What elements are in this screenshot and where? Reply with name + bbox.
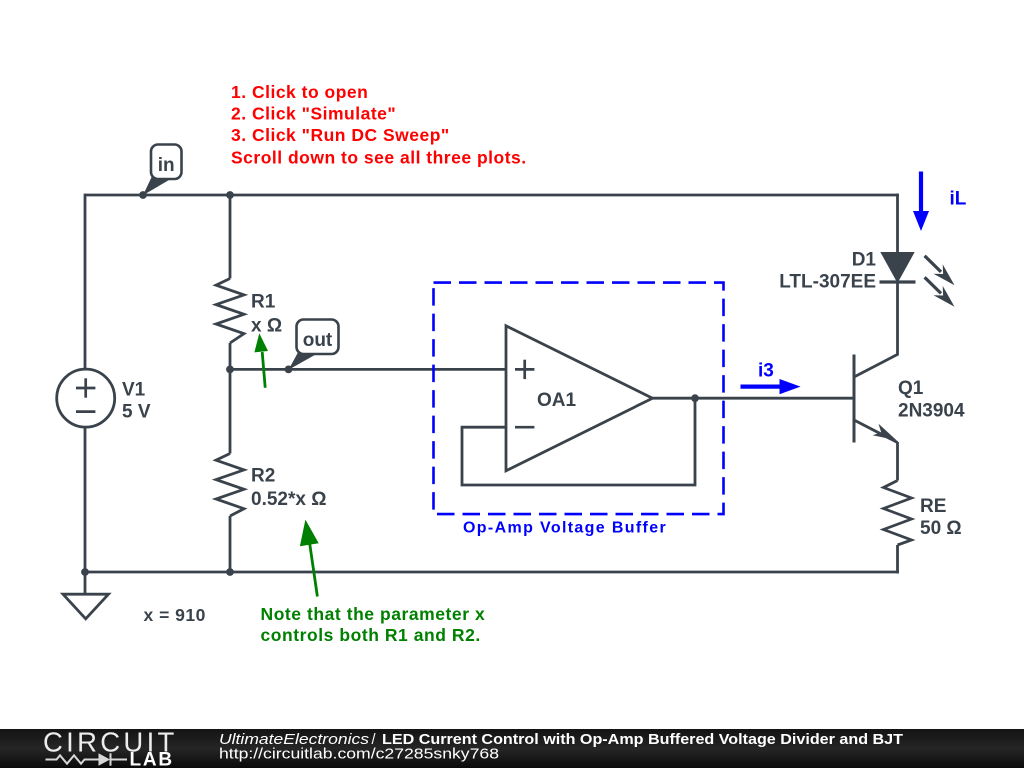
wire R1-R2 middle	[229, 343, 232, 454]
svg-text:controls both R1 and R2.: controls both R1 and R2.	[261, 625, 481, 645]
green note text	[261, 604, 486, 645]
voltage source V1	[57, 369, 115, 427]
svg-text:LTL-307EE: LTL-307EE	[779, 272, 876, 293]
current arrow iL	[913, 172, 929, 232]
LED D1 triangle	[882, 253, 913, 281]
resistor R2	[216, 454, 244, 517]
green arrow to R2 note	[300, 520, 319, 597]
wire R2 bottom lead	[229, 516, 232, 572]
svg-text:R2: R2	[251, 466, 275, 487]
LED D1 light arrow 2	[925, 277, 955, 306]
svg-text:V1: V1	[122, 380, 146, 401]
resistor RE	[884, 481, 912, 546]
svg-text:http://circuitlab.com/c27285sn: http://circuitlab.com/c27285snky768	[219, 746, 499, 763]
footer logo resistor-diode glyph	[46, 753, 128, 765]
op-amp minus input sign	[515, 426, 534, 429]
svg-text:x = 910: x = 910	[144, 605, 206, 625]
node op-amp output junction dot	[691, 394, 699, 402]
node out junction dot	[226, 366, 234, 374]
ground symbol	[63, 594, 109, 619]
wire Q1 emitter lead	[896, 442, 899, 481]
node flag out	[289, 320, 339, 370]
svg-text:Scroll down to see all three p: Scroll down to see all three plots.	[231, 148, 527, 168]
node R2 bottom junction dot	[226, 568, 234, 576]
wire RE bottom lead	[896, 545, 899, 573]
wire right rail to LED anode	[896, 194, 899, 254]
current arrow i3	[741, 379, 801, 394]
transistor Q1 collector	[854, 354, 898, 377]
footer bar	[0, 729, 1024, 768]
svg-text:50 Ω: 50 Ω	[920, 518, 962, 539]
transistor Q1 base bar	[853, 355, 856, 443]
svg-text:5 V: 5 V	[122, 402, 151, 423]
svg-text:3. Click "Run DC Sweep": 3. Click "Run DC Sweep"	[231, 125, 450, 145]
LED D1 cathode bar	[880, 280, 916, 283]
op-amp OA1 triangle	[506, 326, 653, 471]
svg-text:Q1: Q1	[898, 378, 924, 399]
wire R1 top lead	[229, 194, 232, 279]
node flag in	[143, 145, 182, 196]
node R1 top junction dot	[226, 191, 234, 199]
svg-text:out: out	[303, 330, 333, 351]
svg-text:Note that the parameter x: Note that the parameter x	[261, 604, 486, 624]
node in junction dot	[139, 191, 147, 199]
svg-text:0.52*x Ω: 0.52*x Ω	[251, 489, 326, 510]
svg-text:iL: iL	[950, 189, 967, 210]
node out flag junction dot	[285, 366, 293, 374]
svg-text:R1: R1	[251, 292, 276, 313]
wire LED cathode to Q1 collector	[896, 282, 899, 355]
wire bottom rail	[84, 571, 899, 574]
svg-text:2. Click "Simulate": 2. Click "Simulate"	[231, 104, 396, 124]
svg-text:i3: i3	[758, 361, 774, 382]
resistor R1	[216, 279, 244, 344]
wire op-amp output to Q1 base	[653, 397, 855, 400]
node ground junction dot	[81, 568, 89, 576]
transistor Q1 emitter	[854, 420, 898, 443]
svg-text:OA1: OA1	[537, 390, 577, 411]
wire top rail	[85, 194, 899, 197]
svg-text:LAB: LAB	[130, 750, 174, 768]
wire out node to op-amp	[230, 368, 506, 371]
svg-text:Op-Amp Voltage Buffer: Op-Amp Voltage Buffer	[463, 520, 667, 537]
svg-text:1. Click to open: 1. Click to open	[231, 82, 368, 102]
svg-text:RE: RE	[920, 496, 946, 517]
LED D1 light arrow 1	[925, 256, 955, 285]
svg-text:in: in	[158, 155, 175, 176]
svg-text:D1: D1	[852, 250, 877, 271]
wire ground stem	[84, 572, 87, 594]
dashed box Op-Amp Voltage Buffer	[434, 283, 724, 514]
wire left rail upper	[84, 194, 87, 370]
svg-text:x Ω: x Ω	[251, 316, 282, 337]
red instructions text	[231, 82, 527, 168]
wire op-amp feedback	[462, 397, 695, 485]
op-amp plus input sign	[515, 360, 534, 379]
svg-text:2N3904: 2N3904	[898, 401, 965, 422]
wire left rail lower	[84, 427, 87, 574]
green arrow to R1	[254, 333, 268, 387]
